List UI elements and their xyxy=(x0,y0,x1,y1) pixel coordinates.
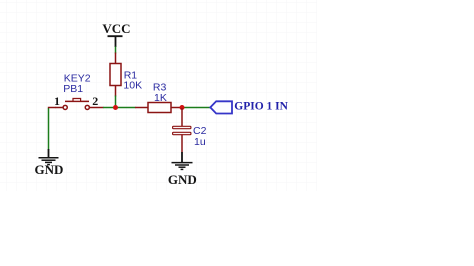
resistor R3 xyxy=(135,103,182,113)
svg-text:GPIO 1 IN: GPIO 1 IN xyxy=(234,100,288,112)
ground symbol GND left xyxy=(39,149,59,165)
pin1 lead extension xyxy=(48,107,56,109)
port GPIO 1 IN xyxy=(210,101,232,113)
junction node B xyxy=(180,105,185,110)
svg-text:1K: 1K xyxy=(154,92,167,104)
svg-text:GND: GND xyxy=(168,172,197,187)
svg-text:10K: 10K xyxy=(123,79,142,91)
svg-text:VCC: VCC xyxy=(102,21,130,36)
junction node A xyxy=(113,105,118,110)
wire node B to port xyxy=(182,107,211,109)
svg-text:1: 1 xyxy=(54,94,60,108)
push button KEY2 / PB1 xyxy=(55,98,104,109)
wire pin1 corner to ground xyxy=(48,108,50,150)
power port VCC xyxy=(108,36,123,47)
svg-text:2: 2 xyxy=(92,94,98,108)
ground symbol GND right xyxy=(172,152,193,169)
schematic sheet background with grid xyxy=(0,0,317,191)
svg-text:GND: GND xyxy=(35,162,64,177)
svg-text:PB1: PB1 xyxy=(63,83,83,95)
wire pin2 to node xyxy=(103,107,136,109)
resistor R1 xyxy=(110,53,121,97)
wire VCC to R1 xyxy=(115,47,117,54)
wire R1 to bus xyxy=(115,96,117,108)
capacitor C2 xyxy=(173,108,191,153)
svg-text:1u: 1u xyxy=(194,136,206,148)
